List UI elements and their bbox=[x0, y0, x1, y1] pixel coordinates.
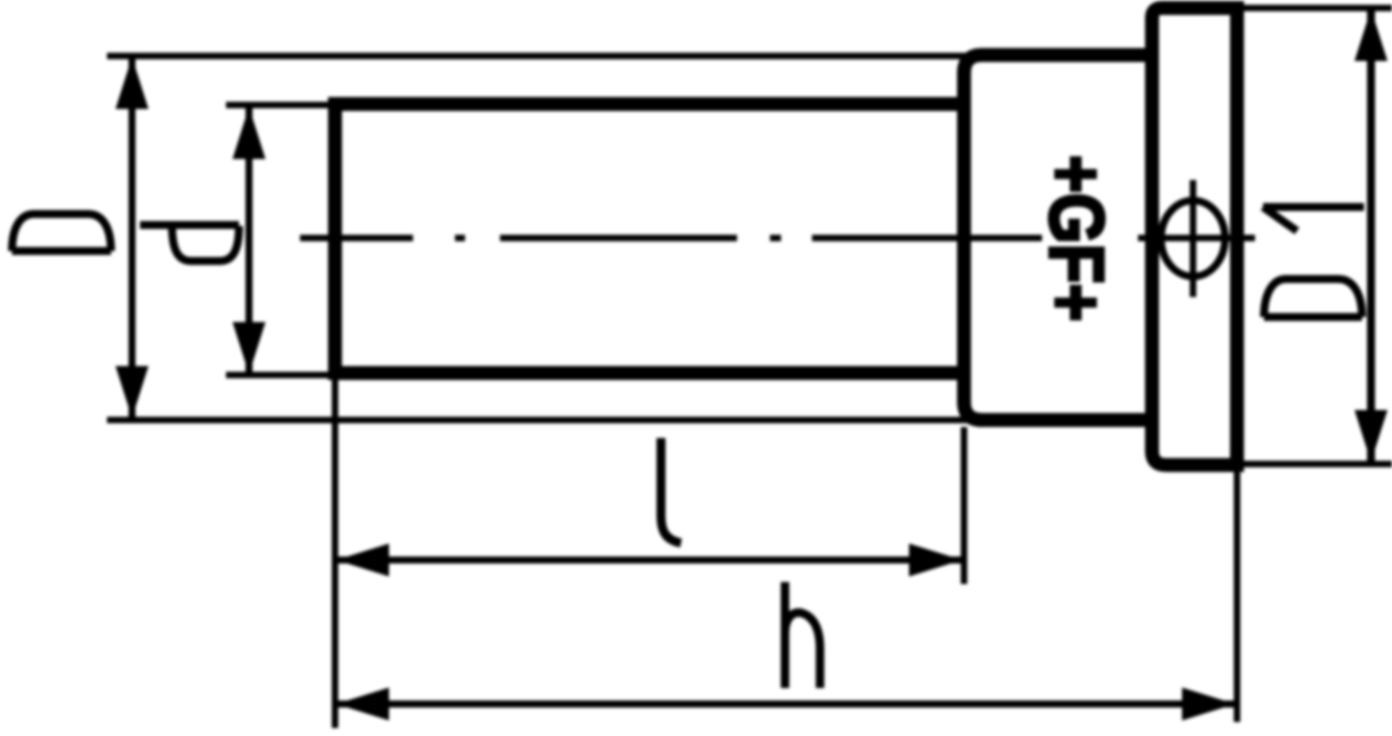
centerline (dash-dot axis) bbox=[300, 235, 1042, 242]
dimension D1 extension line top bbox=[1244, 5, 1392, 12]
dimension D extension line top bbox=[107, 53, 970, 60]
dimension D line bbox=[129, 57, 136, 418]
dimension D1 arrow down bbox=[1355, 410, 1388, 462]
dimension d line bbox=[246, 107, 253, 374]
dimension D1 line bbox=[1367, 9, 1375, 462]
dimension D extension line bottom bbox=[107, 417, 970, 424]
flange body bbox=[1152, 8, 1237, 465]
dimension h line bbox=[336, 701, 1235, 708]
collar (socket) rounded body bbox=[964, 55, 1152, 420]
dimension l line bbox=[336, 557, 962, 564]
dimension d arrow up bbox=[233, 107, 266, 159]
dimension D1 extension line bottom bbox=[1244, 461, 1392, 468]
dimension D arrow down bbox=[116, 366, 149, 418]
label D1: 1 part (rotated) bbox=[1263, 207, 1364, 231]
dimension D arrow up bbox=[116, 57, 149, 109]
dimension D1 arrow up bbox=[1355, 9, 1388, 61]
dimension h arrow right bbox=[1182, 688, 1235, 721]
dimension d arrow down bbox=[233, 322, 266, 374]
label l bbox=[661, 438, 681, 543]
dimension h right extension bbox=[1234, 471, 1241, 722]
dimension l right extension bbox=[961, 427, 968, 584]
dimension d extension line bottom bbox=[226, 372, 340, 379]
dimension h arrow left bbox=[336, 688, 389, 721]
pipe body rectangle bbox=[335, 104, 964, 373]
dimension l left extension bbox=[332, 380, 339, 728]
drill mark crosshair horizontal bbox=[1138, 235, 1255, 242]
label D1: D part (rotated) bbox=[1264, 279, 1362, 317]
label h bbox=[785, 582, 820, 688]
dimension d extension line top bbox=[226, 102, 340, 109]
drill mark circle bbox=[1161, 201, 1225, 277]
dimension l arrow left bbox=[336, 544, 389, 577]
svg-text:+GF+: +GF+ bbox=[1033, 155, 1119, 321]
drill mark crosshair vertical bbox=[1190, 180, 1197, 297]
dimension l arrow right bbox=[909, 544, 962, 577]
label d (rotated) bbox=[140, 225, 239, 261]
label D (rotated) bbox=[12, 214, 111, 251]
